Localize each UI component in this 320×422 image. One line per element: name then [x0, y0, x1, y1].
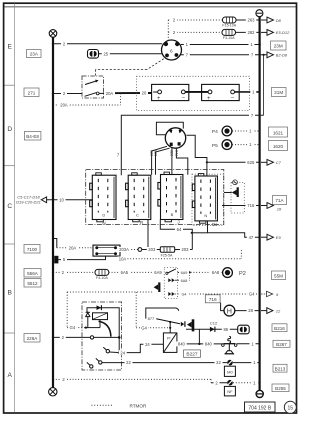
arrow E9	[261, 234, 281, 240]
relay code box B227	[184, 350, 201, 358]
svg-text:6A8: 6A8	[181, 279, 188, 283]
wire label 203A	[118, 247, 131, 252]
dotted G4 wire to flasher	[67, 292, 170, 328]
wire label 1	[247, 142, 253, 147]
svg-text:F3-10A: F3-10A	[223, 36, 235, 40]
wire 625 to right bus	[207, 161, 259, 163]
column switch box	[82, 76, 104, 98]
svg-text:F25-5A: F25-5A	[161, 253, 173, 257]
cigar lighter	[222, 336, 237, 353]
wire label 2	[61, 377, 67, 382]
diode C12	[210, 320, 218, 332]
svg-text:716: 716	[209, 297, 217, 303]
diode D1	[97, 305, 102, 310]
svg-text:6: 6	[170, 48, 173, 54]
flasher unit dash-dot box	[82, 302, 122, 370]
battery 1	[152, 84, 189, 102]
wire label 203	[180, 247, 190, 252]
wire label 24	[143, 342, 151, 347]
component code box B255	[272, 384, 289, 392]
switch contact upper	[85, 80, 98, 85]
rotated wire labels	[149, 150, 178, 156]
wire 5	[58, 256, 105, 260]
wire label 2	[171, 18, 177, 23]
connector block D	[90, 173, 116, 222]
svg-text:E9: E9	[276, 235, 282, 240]
arrow 12 (filled)	[261, 308, 281, 314]
svg-text:NF: NF	[227, 389, 233, 394]
svg-text:22: 22	[126, 360, 131, 365]
svg-text:64: 64	[177, 227, 182, 232]
svg-text:203: 203	[148, 247, 156, 252]
svg-text:203: 203	[182, 247, 190, 252]
ignition switch connector S	[162, 40, 182, 60]
arrow E5-D12	[261, 30, 290, 36]
fixed contact	[181, 321, 185, 327]
svg-text:21M: 21M	[274, 90, 283, 95]
fuse F4-10A	[95, 269, 109, 280]
button blade	[156, 319, 180, 324]
svg-text:N: N	[102, 221, 105, 226]
svg-text:6A5: 6A5	[121, 270, 129, 275]
stub from left bus to 20A row	[53, 239, 57, 248]
fusible link bar	[54, 256, 58, 264]
svg-text:M0: M0	[227, 369, 233, 374]
svg-text:271: 271	[28, 90, 36, 95]
wire 282 fuse to bus	[236, 31, 259, 33]
wire 10 with destination note	[16, 195, 92, 205]
bus junction dots	[52, 43, 265, 380]
wire 2 bus to ignition switch	[53, 43, 162, 45]
wire 826	[156, 148, 170, 175]
wire 24 to horn relay	[119, 344, 163, 352]
svg-text:826: 826	[154, 150, 158, 156]
internal feed wire	[87, 308, 119, 353]
wire label 28	[247, 308, 255, 313]
wire label 6A9	[153, 270, 164, 275]
svg-text:B255: B255	[275, 386, 286, 391]
svg-text:F15-10A: F15-10A	[222, 23, 236, 27]
dashed link ignition to column switch	[96, 59, 164, 76]
fuse F25-5A	[160, 247, 174, 257]
svg-text:B267: B267	[276, 342, 287, 347]
svg-text:226A: 226A	[27, 336, 39, 341]
dotted 6A8 to P2	[191, 271, 223, 273]
battery 2	[202, 84, 240, 102]
wire 20A switch to battery (heavy)	[99, 92, 103, 94]
wire 86 diode row	[186, 328, 238, 330]
svg-text:86: 86	[223, 327, 228, 332]
wire 1 M0 to bus	[233, 362, 259, 364]
wire 828	[171, 148, 173, 175]
connector block B	[158, 172, 183, 222]
wire label 10A	[118, 256, 128, 261]
svg-text:C7: C7	[276, 160, 282, 165]
dotted G4 wire to right bus	[175, 293, 259, 295]
horn wire number box 716	[205, 295, 220, 303]
wire label 1 battery	[250, 90, 256, 95]
buzzer dotted box	[231, 182, 244, 213]
legend dotted sample	[92, 404, 113, 406]
motor symbol M0	[224, 360, 235, 377]
wire 7 bypass down right of bus	[263, 55, 265, 115]
wire 716 to right bus	[222, 205, 259, 207]
wire label 47	[247, 235, 255, 240]
svg-text:D19-C20-D21: D19-C20-D21	[16, 200, 41, 205]
svg-text:1620: 1620	[273, 144, 284, 149]
wire label 1	[251, 380, 257, 385]
svg-text:P5: P5	[212, 143, 218, 149]
wire label 1	[249, 42, 255, 47]
screw terminal	[233, 180, 238, 185]
socket P5	[212, 140, 259, 150]
wire label 1	[184, 42, 190, 47]
dashed arrow 9	[261, 291, 279, 297]
piezo contact left of box	[154, 282, 161, 292]
component code box 71A	[273, 196, 287, 205]
wire label 840	[176, 341, 187, 346]
svg-text:282: 282	[248, 30, 256, 35]
wire label G4	[248, 292, 256, 297]
component code box 1621	[269, 127, 288, 137]
device NF	[224, 380, 235, 396]
wire label 5	[61, 257, 67, 262]
connector block Bc	[192, 174, 217, 224]
svg-text:23A: 23A	[30, 52, 39, 57]
dotted wire 1 NF to bus	[233, 382, 259, 384]
svg-text:840: 840	[205, 342, 213, 347]
svg-text:71A: 71A	[275, 198, 284, 203]
wire 203 fuse up to block J	[175, 249, 193, 251]
wire 840 relay to lighter	[177, 343, 224, 345]
dotted 20A wire to relay	[57, 247, 93, 249]
svg-text:15: 15	[288, 405, 294, 411]
component code box 7100	[24, 245, 40, 254]
wire label 2	[60, 270, 66, 275]
svg-text:J: J	[177, 220, 179, 225]
svg-text:828: 828	[170, 150, 174, 156]
component code box 23A	[27, 50, 42, 58]
wire label 7	[184, 52, 190, 57]
wire 47 block Bc to right bus	[208, 221, 259, 237]
wire 523	[152, 146, 167, 175]
wire label 20A	[59, 103, 70, 108]
arrow D8	[261, 17, 282, 23]
battery link wire	[185, 91, 208, 93]
svg-text:55M: 55M	[274, 274, 283, 279]
wire 7 right bus to connector block	[121, 115, 263, 175]
svg-text:24: 24	[145, 342, 150, 347]
wire 28 horn to bus	[235, 310, 259, 312]
component code box 21M	[272, 88, 287, 97]
horn relay Pr	[163, 333, 177, 353]
svg-text:B213: B213	[275, 367, 286, 372]
svg-text:+: +	[157, 96, 161, 102]
right bus top terminal (circled minus)	[256, 10, 263, 17]
zener diode	[86, 312, 90, 327]
svg-text:10: 10	[59, 197, 64, 202]
svg-text:20A: 20A	[69, 245, 77, 250]
svg-text:B227: B227	[186, 352, 198, 358]
svg-text:E: E	[7, 43, 12, 50]
svg-text:RTMOR: RTMOR	[130, 404, 147, 409]
connector throttle symbol top-left	[88, 50, 99, 59]
wire label 1	[247, 129, 253, 134]
component code box 271	[24, 88, 39, 97]
left bus bottom terminal (circled cross)	[49, 388, 57, 396]
svg-text:G4: G4	[70, 325, 76, 330]
svg-text:716: 716	[247, 203, 255, 208]
wire label 22	[215, 360, 223, 365]
wire label 716	[246, 203, 257, 208]
wire label 7	[249, 52, 255, 57]
arrow B2-D8	[267, 52, 288, 58]
wire label 263	[246, 18, 256, 23]
wire button to horn relay	[169, 322, 171, 333]
svg-text:D8: D8	[276, 18, 282, 23]
wire 841	[176, 148, 187, 175]
dotted wire 2 from bus to fuse F4	[53, 271, 95, 273]
wire label 282	[246, 30, 256, 35]
svg-text:B216: B216	[274, 326, 285, 331]
wire label G4	[140, 325, 148, 330]
svg-text:A: A	[7, 372, 12, 379]
horn button 877	[146, 308, 179, 319]
wire 2 bus to switch	[53, 93, 82, 95]
wire label 20A	[67, 245, 78, 250]
component code box B4-E8	[24, 132, 41, 141]
flasher contact 22	[96, 358, 102, 364]
svg-text:20A: 20A	[60, 103, 68, 108]
starter relay	[93, 245, 120, 256]
component code box 23M	[271, 41, 287, 50]
wire label 1	[250, 341, 256, 346]
svg-text:12: 12	[276, 308, 281, 313]
svg-text:Bc: Bc	[212, 222, 218, 227]
svg-text:B: B	[171, 212, 174, 217]
svg-text:−: −	[182, 95, 186, 101]
svg-text:523: 523	[149, 150, 153, 156]
svg-text:28: 28	[248, 308, 253, 313]
steering column switch dotted box	[164, 267, 177, 298]
wire 1 lighter to bus	[237, 343, 259, 345]
wire label 20	[140, 91, 148, 96]
arrow C7	[261, 159, 282, 165]
arrow 18	[261, 203, 282, 212]
svg-text:6A9: 6A9	[181, 271, 188, 275]
wire label 2	[61, 91, 67, 96]
wire label 24	[119, 350, 127, 355]
wire label 1	[251, 360, 257, 365]
wire 203 junction to fuse	[142, 249, 161, 251]
horn H	[221, 303, 235, 316]
wire 22 to motor	[102, 362, 227, 364]
wire label 6A8	[179, 278, 189, 283]
connector throttle symbol right	[238, 325, 250, 334]
right supply bus	[259, 17, 261, 391]
right bus bottom terminal (circled minus)	[256, 390, 263, 397]
wire 263 fuse to bus	[236, 19, 259, 21]
dotted wire relay to right	[128, 250, 242, 259]
wire label 7	[249, 113, 255, 118]
wire label 6A8	[210, 270, 221, 275]
wire label G4	[179, 292, 189, 297]
moving contact arc	[99, 321, 111, 336]
flasher spare contact	[87, 362, 93, 368]
fuse F13-10A	[222, 29, 236, 40]
svg-text:F4-10A: F4-10A	[96, 276, 108, 280]
svg-text:1621: 1621	[273, 131, 284, 136]
dotted 6A5 wire to column switch	[109, 271, 165, 273]
svg-text:−: −	[230, 95, 234, 101]
battery unit dotted enclosure	[137, 76, 250, 110]
svg-text:841: 841	[174, 150, 178, 156]
piezo contact	[187, 319, 194, 331]
wire label 2	[214, 380, 220, 385]
svg-text:B2-D8: B2-D8	[276, 53, 288, 58]
svg-text:18: 18	[277, 206, 282, 211]
svg-text:C12: C12	[210, 320, 218, 325]
switch contact lower	[85, 92, 100, 96]
DIN diagnostic connector	[165, 128, 185, 148]
connector block C	[126, 173, 151, 222]
svg-text:25: 25	[103, 51, 108, 56]
dash-dot enclosure around blocks	[86, 170, 224, 225]
margin row letters	[7, 43, 12, 379]
component code box 5512	[24, 279, 41, 288]
svg-text:B4-E8: B4-E8	[26, 134, 39, 139]
sheet number circle 15	[284, 401, 296, 413]
wire label 2	[171, 30, 177, 35]
wire label 6A9	[179, 270, 189, 275]
wire label 2	[60, 335, 66, 340]
fuse F15-10A	[222, 17, 236, 27]
wire label 25	[102, 51, 110, 56]
svg-text:5512: 5512	[27, 281, 38, 286]
wire label 2	[61, 41, 67, 46]
svg-text:22: 22	[216, 360, 221, 365]
svg-text:263: 263	[248, 18, 256, 23]
dotted enclosure around block Bc	[192, 174, 224, 225]
relay coil	[93, 313, 108, 320]
svg-text:P4: P4	[212, 129, 218, 135]
component code box B216	[272, 324, 287, 332]
socket P2	[223, 268, 246, 278]
svg-text:20: 20	[142, 91, 147, 96]
svg-text:E5-D12: E5-D12	[276, 30, 290, 35]
wire 7 ignition to right bus	[181, 54, 267, 56]
svg-text:G4: G4	[181, 293, 186, 297]
component code box 55M	[272, 271, 286, 280]
svg-text:D: D	[7, 126, 12, 133]
component code box 226A	[24, 334, 40, 343]
contact row 2	[168, 272, 189, 282]
svg-text:625: 625	[247, 160, 255, 165]
svg-text:877: 877	[148, 316, 155, 321]
wire block C down	[147, 220, 149, 250]
wire 64 block J to fuse row	[160, 220, 192, 250]
contact row 3	[168, 292, 174, 296]
component code box B267	[273, 340, 290, 347]
dotted feed up from ignition	[168, 20, 222, 41]
battery output stub	[235, 91, 259, 93]
svg-text:840: 840	[178, 342, 186, 347]
component code box 556A	[24, 269, 41, 278]
svg-text:10A: 10A	[119, 257, 127, 262]
wire 1 ignition to right bus	[181, 44, 259, 46]
left bus top terminal (circled cross)	[49, 30, 57, 38]
wire label 10	[58, 197, 66, 202]
svg-text:G4: G4	[141, 325, 147, 330]
svg-text:20A: 20A	[106, 91, 114, 96]
wire to block Bc with 625 branch	[186, 135, 207, 176]
wire label 7	[116, 153, 121, 158]
svg-text:C: C	[136, 213, 139, 218]
svg-text:47: 47	[249, 235, 254, 240]
flasher contact 24	[103, 347, 119, 353]
wire loop over connector	[156, 122, 183, 135]
svg-text:24: 24	[120, 350, 125, 355]
svg-text:P2: P2	[239, 271, 246, 277]
wire label 86	[222, 327, 230, 332]
svg-text:N: N	[204, 213, 207, 218]
left supply bus	[52, 37, 54, 387]
svg-text:B: B	[7, 290, 12, 297]
svg-text:C: C	[7, 203, 12, 210]
title number box	[245, 402, 276, 412]
wire 203A relay to junction	[120, 249, 129, 251]
wire label 840	[203, 341, 214, 346]
svg-text:D: D	[102, 213, 105, 218]
junction ring	[138, 248, 142, 252]
wire label G4	[68, 325, 76, 330]
wire label 20A	[104, 91, 115, 96]
svg-text:203A: 203A	[119, 247, 129, 252]
wire label 6A5	[119, 270, 130, 275]
svg-text:7100: 7100	[27, 247, 38, 252]
socket P4	[212, 126, 259, 136]
wire label 64	[175, 227, 183, 232]
wire label 22	[125, 360, 133, 365]
component code box B213	[273, 364, 287, 372]
svg-text:+: +	[207, 96, 211, 102]
wire 2 bus to flasher	[53, 336, 90, 338]
wire 25 to ignition	[99, 53, 163, 55]
svg-text:6A8: 6A8	[212, 270, 220, 275]
dotted branch of 20A	[56, 93, 121, 105]
svg-text:23M: 23M	[274, 44, 283, 49]
svg-text:H: H	[227, 306, 232, 315]
svg-text:556A: 556A	[27, 271, 39, 276]
svg-text:G4: G4	[249, 292, 255, 297]
wire label 203	[147, 247, 157, 252]
svg-text:704 192 B: 704 192 B	[248, 405, 271, 411]
contact row 1	[166, 269, 176, 275]
component code box 1620	[269, 141, 288, 151]
wire label 625	[246, 160, 257, 165]
dotted wire 2 along bottom	[56, 379, 211, 382]
svg-text:6A9: 6A9	[154, 270, 162, 275]
buzzer	[224, 187, 239, 197]
